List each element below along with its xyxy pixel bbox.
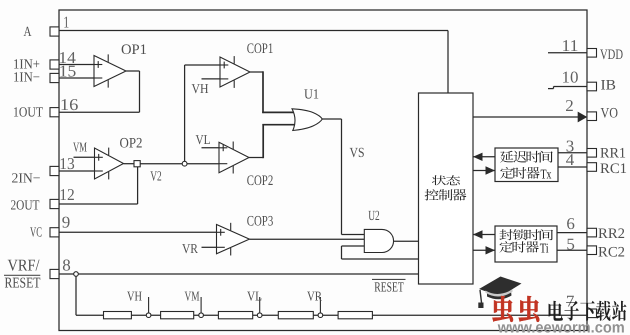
wire U1 out VS (322, 118, 341, 120)
svg-text:2OUT: 2OUT (11, 199, 40, 214)
wire V2 up to COP1+ (184, 65, 186, 161)
resistor R2 (161, 312, 194, 319)
resistor R1 (104, 312, 132, 319)
wire pin8 RESET net (59, 273, 419, 275)
wire pin13 to OP2- (59, 170, 95, 172)
wire ctrl-Tx arrow right (473, 170, 495, 172)
svg-text:VO: VO (601, 106, 619, 122)
resistor R4 (278, 312, 313, 319)
svg-text:9: 9 (62, 213, 71, 232)
svg-text:VL: VL (247, 288, 262, 303)
svg-text:RC2: RC2 (598, 244, 625, 260)
watermark 虫虫 (492, 296, 539, 322)
svg-text:VH: VH (192, 81, 209, 96)
resistor R5 (338, 312, 372, 319)
text 状态控制器 (432, 175, 446, 185)
svg-text:www.eeworm.com: www.eeworm.com (497, 320, 625, 335)
text 封锁时间定时器Ti (499, 229, 512, 240)
watermark graduation cap (479, 277, 522, 297)
wire OP1 feedback to 1OUT (126, 70, 140, 72)
svg-text:OP1: OP1 (121, 42, 147, 58)
svg-text:VDD: VDD (600, 47, 623, 63)
and-gate U2 (364, 229, 393, 252)
wire ctrl-Tx arrow left (473, 156, 495, 158)
svg-text:VH: VH (127, 288, 142, 303)
wire ctrl-Ti arrow right (473, 249, 495, 251)
wire pin14 to OP1+ (59, 64, 94, 66)
svg-text:COP1: COP1 (247, 41, 274, 57)
wire OP2 feedback to 2OUT (137, 167, 139, 204)
svg-text:A: A (24, 25, 33, 40)
wire pin12 2OUT (60, 203, 138, 205)
wire pin6 stub (557, 232, 587, 234)
wire U2 output to controller (394, 240, 419, 242)
pin squares right: 11,10,2,3,4,6,5,7 (587, 49, 597, 58)
comparator COP1 (220, 57, 250, 87)
wire VR stub to COP3- (202, 246, 217, 248)
svg-text:6: 6 (566, 214, 575, 233)
svg-text:2IN−: 2IN− (12, 172, 41, 187)
resistor R3 (218, 312, 252, 319)
wire VL stub to COP2+ (202, 147, 220, 149)
svg-text:VRF/: VRF/ (8, 255, 40, 274)
svg-text:5: 5 (566, 235, 575, 254)
wire pin11 stub (548, 52, 587, 54)
svg-text:VR: VR (182, 241, 198, 256)
text 延迟时间定时器Tx (500, 151, 513, 163)
svg-text:8: 8 (62, 255, 71, 274)
node tap VL (259, 297, 261, 313)
wire resistor chain (76, 314, 587, 316)
watermark 电子下载站 (549, 301, 563, 321)
svg-text:VL: VL (196, 132, 211, 147)
svg-text:1: 1 (63, 13, 69, 32)
svg-text:10: 10 (562, 67, 579, 86)
wire VH stub to COP1- (202, 78, 221, 80)
wire pin15 to OP1- (59, 77, 94, 79)
wire VO with arrow (473, 116, 586, 118)
wire COP1 out to U1 (250, 71, 263, 73)
wire pin1 A net (59, 30, 448, 32)
svg-text:U2: U2 (368, 209, 380, 224)
node OP2 output square (124, 163, 135, 165)
node tap VH (148, 297, 150, 313)
wire ctrl-Ti arrow left (473, 234, 495, 236)
svg-text:13: 13 (59, 154, 75, 173)
block state-controller (419, 93, 474, 284)
svg-text:RR1: RR1 (600, 145, 626, 161)
wire VS into U2 top input (342, 234, 365, 236)
svg-text:VR: VR (307, 288, 322, 303)
svg-text:OP2: OP2 (120, 135, 143, 151)
svg-text:COP3: COP3 (247, 214, 274, 230)
svg-text:RC1: RC1 (600, 161, 627, 177)
block lockout-timer-Ti (495, 226, 557, 262)
block delay-timer-Tx (495, 148, 558, 182)
node V2 junction (182, 161, 187, 166)
svg-text:COP2: COP2 (247, 173, 274, 189)
svg-text:VM: VM (185, 288, 200, 303)
svg-text:RESET: RESET (374, 280, 404, 295)
svg-text:RESET: RESET (5, 275, 41, 291)
svg-text:IB: IB (601, 78, 617, 94)
svg-text:1IN−: 1IN− (13, 70, 40, 85)
svg-text:2: 2 (565, 96, 574, 115)
svg-text:U1: U1 (304, 88, 319, 103)
wire COP3 out to U2 (250, 238, 365, 240)
comparator COP2 (219, 142, 249, 172)
wire U2 bottom input loop (342, 245, 365, 247)
wire pin9 VC to COP3+ (59, 231, 224, 233)
svg-text:VS: VS (350, 146, 365, 161)
node tap VM (200, 297, 202, 313)
wire V2 line (140, 163, 219, 165)
node tap VR (319, 297, 321, 313)
wire VM stub to OP2+ (74, 156, 95, 158)
comparator COP3 (217, 225, 250, 254)
svg-text:7: 7 (566, 292, 575, 311)
svg-text:Tx: Tx (541, 167, 552, 182)
op-amp OP2 (95, 148, 124, 179)
svg-text:16: 16 (60, 95, 79, 114)
svg-text:V2: V2 (150, 169, 162, 184)
svg-text:1OUT: 1OUT (13, 105, 43, 120)
node pin8 junction (74, 272, 79, 277)
wire pin10 stub (548, 88, 554, 90)
wire COP2 out to U1 (249, 157, 263, 159)
wire pin4 stub (558, 166, 587, 168)
pin squares left: A,14,15,16,13,12,9,8 (50, 27, 59, 36)
svg-text:12: 12 (59, 185, 75, 204)
svg-text:11: 11 (562, 36, 579, 55)
wire pin16 1OUT (60, 111, 140, 113)
op-amp OP1 (94, 56, 126, 87)
or-gate U1 (292, 109, 322, 131)
svg-text:Ti: Ti (540, 240, 549, 255)
wire pin3 stub (558, 152, 587, 154)
wire pin5 stub (557, 249, 587, 251)
svg-text:VC: VC (30, 226, 42, 241)
svg-text:RR2: RR2 (598, 226, 625, 242)
svg-text:4: 4 (566, 150, 575, 169)
svg-text:VM: VM (73, 140, 87, 155)
